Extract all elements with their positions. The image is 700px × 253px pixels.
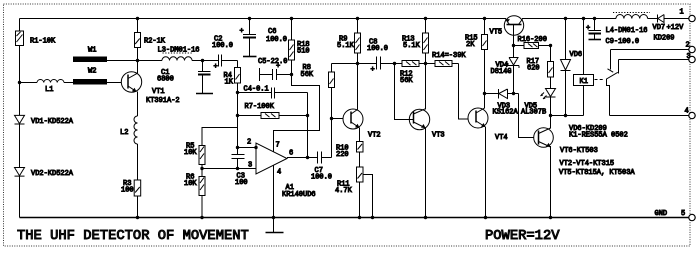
capacitor C2: [214, 55, 238, 72]
transistor VT4: [468, 108, 488, 128]
svg-text:K1: K1: [580, 78, 588, 86]
node R6-bus: [200, 216, 203, 219]
node R7 right: [306, 114, 309, 117]
node R13 bottom: [424, 62, 427, 65]
svg-text:R1-10K: R1-10K: [30, 38, 56, 46]
svg-text:3: 3: [248, 162, 252, 170]
node VD5-collector junction: [549, 114, 552, 117]
resistor R17: [548, 46, 554, 89]
wire L2 to R3: [137, 144, 139, 180]
svg-text:D814G: D814G: [491, 68, 512, 76]
node R2-collector junction: [136, 59, 139, 62]
resistor R4: [235, 68, 241, 84]
node VT6-bus: [549, 216, 552, 219]
node VT2 base junction: [330, 117, 333, 120]
node C3-pin3 junction: [236, 167, 239, 170]
node R16 left: [512, 44, 515, 47]
terminal 5 GND: [689, 214, 695, 220]
svg-text:R2-1K: R2-1K: [144, 38, 166, 46]
capacitor C6: [240, 19, 257, 57]
node output-feedback: [306, 156, 309, 159]
resistor R14 adjustable: [426, 61, 459, 67]
node rail-C6: [248, 17, 251, 20]
node pin2: [254, 146, 257, 149]
transistor VT6: [534, 128, 554, 148]
svg-text:R16-200: R16-200: [518, 36, 547, 44]
resistor R1: [16, 31, 24, 46]
svg-text:VD2-KD522A: VD2-KD522A: [31, 170, 74, 178]
wire C7/R8 vertical to VT2 base: [331, 64, 333, 158]
diode VD2: [15, 168, 25, 177]
svg-text:VD1-KD522A: VD1-KD522A: [31, 118, 74, 126]
svg-text:R14=-39K: R14=-39K: [432, 52, 466, 60]
resistor R5: [199, 146, 205, 165]
node VT4-bus: [484, 216, 487, 219]
wire relay common row: [551, 115, 584, 117]
capacitor C1: [198, 61, 211, 94]
svg-text:10K: 10K: [184, 149, 197, 157]
wire R4 to node A: [237, 83, 239, 93]
capacitor C7: [318, 152, 332, 164]
svg-text:VT2-VT4-KT315: VT2-VT4-KT315: [560, 160, 615, 168]
wire R2 to node: [137, 48, 139, 61]
svg-text:4.7K: 4.7K: [335, 187, 353, 195]
resistor R18: [289, 19, 295, 75]
node A R4/C4: [236, 91, 239, 94]
resistor R13: [423, 19, 429, 64]
svg-text:C6: C6: [268, 28, 276, 36]
op-amp A1 triangle: [256, 143, 287, 174]
resistor R7: [238, 113, 308, 119]
wire left vertical: [19, 19, 21, 218]
node rail-R18: [290, 17, 293, 20]
svg-text:620: 620: [527, 65, 540, 73]
svg-text:6800: 6800: [157, 76, 174, 84]
node VD3 branch: [483, 92, 486, 95]
node C1 junction: [201, 59, 204, 62]
diode VD3: [485, 89, 519, 99]
antenna element W2: [73, 79, 107, 85]
svg-text:+: +: [240, 28, 244, 36]
svg-text:2: 2: [247, 139, 251, 147]
terminal 4: [689, 112, 695, 118]
svg-text:VT4: VT4: [495, 134, 508, 142]
svg-text:6: 6: [289, 150, 293, 158]
terminal 3: [689, 56, 695, 62]
svg-text:56K: 56K: [301, 71, 314, 79]
wire terminal 3: [619, 59, 689, 61]
wire VT3 emitter to bus: [425, 128, 427, 218]
node R13 rail: [424, 17, 427, 20]
node R5/R6 junction: [200, 167, 203, 170]
antenna element W1: [73, 57, 107, 63]
diode VD7: [658, 15, 689, 23]
diode VD6: [561, 19, 571, 116]
wire VT4 emitter to bus: [485, 127, 487, 218]
svg-text:VT3: VT3: [432, 132, 445, 140]
svg-text:4: 4: [685, 108, 689, 116]
wire VT2 emitter to R10: [359, 128, 361, 142]
svg-text:VD6: VD6: [570, 51, 583, 59]
dashed actuation link: [595, 79, 605, 81]
wire R3 to bus: [137, 196, 139, 218]
svg-text:C9-100.0: C9-100.0: [606, 38, 640, 46]
wire bottom ground bus: [20, 217, 690, 219]
wire VT1 collector: [137, 61, 139, 74]
transistor VT3: [409, 109, 429, 130]
svg-text:VT1: VT1: [152, 88, 165, 96]
wire R10 to R11: [359, 152, 361, 167]
inductor L2: [134, 116, 137, 144]
svg-text:+: +: [276, 63, 280, 71]
node C5/R18 junction: [290, 73, 293, 76]
wire V+ supply path to op-amp pin7: [274, 75, 320, 153]
svg-text:+12V: +12V: [667, 24, 685, 32]
wire mid row to C8: [332, 63, 377, 65]
node VD6 bottom junction: [564, 114, 567, 117]
capacitor C4: [238, 88, 308, 99]
svg-text:VT2: VT2: [368, 132, 381, 140]
svg-text:100.0: 100.0: [266, 36, 287, 44]
node K1 rail: [582, 17, 585, 20]
terminal 1: [689, 15, 695, 21]
wire W2 to VT1 base: [107, 82, 128, 84]
pin 3 wire: [202, 168, 256, 170]
svg-text:L4-DM01-16: L4-DM01-16: [606, 27, 648, 35]
svg-text:KR140UD6: KR140UD6: [282, 191, 316, 199]
svg-text:VT5-KT815A, KT503A: VT5-KT815A, KT503A: [559, 169, 635, 177]
wire inverting node vertical: [237, 93, 239, 148]
svg-text:K1-RES55A 0502: K1-RES55A 0502: [569, 132, 628, 140]
svg-text:5: 5: [681, 210, 685, 218]
svg-text:L1: L1: [45, 86, 53, 94]
resistor R10: [357, 142, 364, 153]
ground bar below bus: [266, 232, 284, 234]
svg-text:100: 100: [121, 187, 134, 195]
node R9 rail: [356, 17, 359, 20]
svg-text:56K: 56K: [400, 77, 413, 85]
wire R6 to bus: [201, 196, 203, 218]
node R11-bus: [358, 216, 361, 219]
svg-text:220: 220: [336, 151, 349, 159]
diode VD5 LED: [541, 89, 556, 116]
wire C2 to R4: [237, 61, 239, 68]
svg-text:R7-100K: R7-100K: [245, 103, 275, 111]
svg-text:+: +: [586, 25, 590, 33]
wire R5 branch: [202, 128, 238, 146]
wire VT6 collector: [550, 116, 552, 129]
resistor R3: [134, 180, 141, 196]
svg-text:1: 1: [680, 9, 684, 17]
wire VT3 base: [395, 64, 414, 120]
resistor R15: [482, 19, 488, 109]
svg-text:KS162A: KS162A: [493, 109, 519, 117]
node R3-bus: [136, 216, 139, 219]
svg-text:W2: W2: [88, 68, 96, 76]
diode VD1: [15, 115, 25, 124]
output wire pin6: [287, 157, 317, 159]
svg-text:7: 7: [276, 142, 280, 150]
svg-text:VD7: VD7: [653, 24, 666, 32]
svg-text:5.1K: 5.1K: [337, 42, 355, 50]
capacitor C8: [371, 57, 395, 75]
wire VT1 emitter: [137, 92, 139, 117]
svg-text:VT6-KT503: VT6-KT503: [560, 147, 598, 155]
node R15 rail: [483, 17, 486, 20]
relay K1: [574, 19, 594, 116]
ground bar under C1: [196, 93, 213, 95]
inductor L1: [20, 80, 74, 83]
node R7 left: [236, 114, 239, 117]
node VD4 bottom junction: [512, 92, 515, 95]
node R16 right: [549, 44, 552, 47]
node VT3-bus: [424, 216, 427, 219]
terminal 2: [689, 46, 695, 52]
ground bar under C9: [589, 39, 602, 41]
transistor VT1: [121, 72, 141, 92]
pin 4 stub to ground: [273, 165, 275, 233]
switch arm: [607, 72, 618, 115]
wire R11 tap to bus: [363, 175, 373, 218]
node tap-bus: [371, 216, 374, 219]
inductor L4 with core: [595, 13, 658, 19]
wire terminal 2: [611, 49, 689, 51]
svg-text:+: +: [214, 63, 218, 71]
node C8/R12/VT3base: [393, 62, 396, 65]
svg-text:THE UHF DETECTOR OF MOVEMENT: THE UHF DETECTOR OF MOVEMENT: [17, 229, 249, 244]
node pin4-bus: [272, 216, 275, 219]
diode VD4 zener: [508, 46, 519, 94]
node VD6 rail: [564, 17, 567, 20]
node rail-R2 junction: [136, 17, 139, 20]
svg-text:10K: 10K: [184, 180, 197, 188]
resistor R9: [355, 19, 361, 64]
svg-text:C4-0.1: C4-0.1: [244, 86, 269, 94]
wire feedback vertical to output: [307, 93, 309, 158]
svg-text:2K: 2K: [466, 41, 475, 49]
svg-text:100.0: 100.0: [367, 45, 388, 53]
svg-text:GND: GND: [655, 210, 668, 218]
resistor R8: [329, 72, 335, 88]
wire to VT2 base: [332, 118, 352, 120]
svg-text:100: 100: [235, 179, 248, 187]
svg-text:KT391A-2: KT391A-2: [146, 97, 180, 105]
svg-text:C5-22.0: C5-22.0: [258, 58, 287, 66]
wire W1 to node: [107, 60, 138, 62]
wire R11 to bus: [359, 182, 361, 218]
svg-text:5.1K: 5.1K: [403, 42, 421, 50]
wire R14 to VT4 base: [459, 64, 477, 120]
svg-text:+: +: [371, 66, 375, 74]
svg-text:1K: 1K: [225, 79, 234, 87]
wire VT3 collector: [425, 64, 427, 110]
wire VT2 collector: [357, 64, 359, 110]
svg-text:VT5: VT5: [490, 29, 503, 37]
wire node to C2: [203, 60, 219, 62]
resistor R12: [395, 61, 426, 67]
transistor VT5: [504, 16, 523, 35]
resistor R2: [135, 33, 141, 48]
wire top power rail: [20, 18, 610, 20]
wire VT5 base stem: [513, 25, 515, 46]
node pin2 left: [236, 146, 239, 149]
pin 2 wire: [238, 147, 257, 149]
svg-text:4: 4: [277, 169, 281, 177]
ground bar under C6: [243, 56, 257, 58]
resistor R6: [199, 177, 205, 196]
svg-text:AL307B: AL307B: [521, 109, 546, 117]
inductor L3 with core: [138, 53, 203, 61]
capacitor C9: [586, 19, 601, 40]
switch contact fixed NO: [618, 60, 620, 74]
wire rail to R2: [137, 19, 139, 33]
resistor R16: [514, 43, 551, 49]
wire VT6 emitter to bus: [550, 146, 552, 218]
svg-text:100.0: 100.0: [212, 42, 233, 50]
wire terminal 4: [610, 115, 689, 117]
wire R5 to junction: [201, 165, 203, 177]
resistor R11: [357, 167, 364, 182]
svg-text:510: 510: [297, 48, 310, 56]
switch contact fixed NC: [608, 50, 614, 73]
svg-text:W1: W1: [88, 47, 96, 55]
transistor VT2: [343, 109, 363, 129]
svg-text:KD209: KD209: [654, 35, 675, 43]
capacitor C5: [260, 63, 292, 82]
capacitor C3: [232, 148, 245, 169]
svg-text:L3-DM01-16: L3-DM01-16: [158, 47, 200, 55]
node junction L1: [18, 81, 21, 84]
svg-text:POWER=12V: POWER=12V: [485, 229, 560, 244]
node C9 rail: [593, 17, 596, 20]
svg-text:100.0: 100.0: [311, 174, 332, 182]
node R9/C8/collector: [356, 62, 359, 65]
wire VD3 to VT6 base: [519, 94, 539, 138]
svg-text:L2: L2: [120, 129, 128, 137]
